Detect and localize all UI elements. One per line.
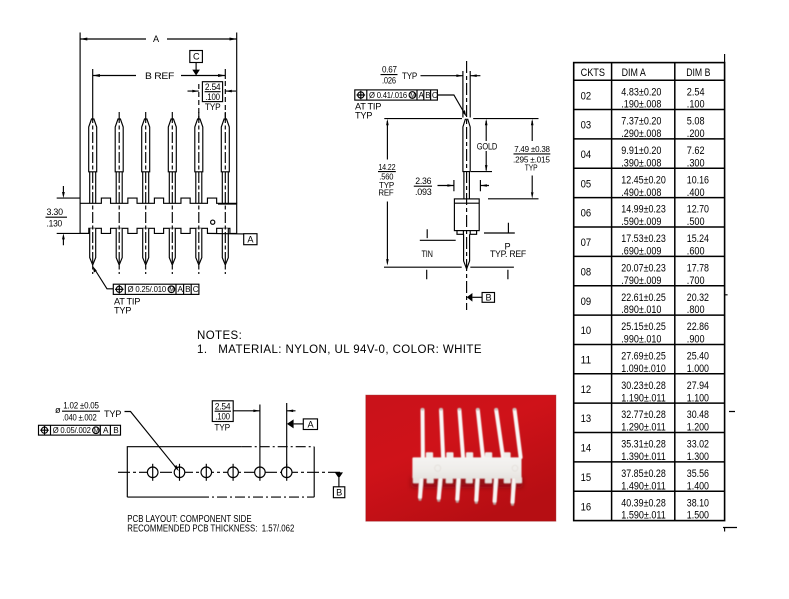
photo bottom pins — [420, 479, 514, 502]
pin 3 — [142, 112, 150, 274]
svg-text:22.86: 22.86 — [687, 321, 709, 333]
svg-text:2.54: 2.54 — [687, 86, 705, 98]
pin 1 — [89, 112, 97, 274]
svg-text:27.69±0.25: 27.69±0.25 — [621, 351, 666, 363]
svg-text:38.10: 38.10 — [687, 497, 709, 509]
table row 16 — [581, 497, 709, 521]
svg-text:4.83±0.20: 4.83±0.20 — [621, 86, 661, 98]
svg-text:1.390±.011: 1.390±.011 — [621, 451, 666, 463]
svg-text:.800: .800 — [687, 304, 705, 316]
PHOTO — [366, 395, 556, 521]
svg-text:.026: .026 — [382, 76, 396, 86]
molding marks — [435, 465, 441, 471]
svg-text:1.100: 1.100 — [687, 392, 709, 404]
dimension B REF extension lines — [93, 69, 226, 112]
svg-text:30.48: 30.48 — [687, 409, 709, 421]
svg-text:11: 11 — [581, 355, 592, 367]
svg-text:35.31±0.28: 35.31±0.28 — [621, 439, 666, 451]
svg-text:1.400: 1.400 — [687, 480, 709, 492]
svg-text:NOTES:: NOTES: — [197, 330, 242, 342]
svg-text:Ø 0.25/.010: Ø 0.25/.010 — [128, 285, 167, 294]
svg-text:14.99±0.23: 14.99±0.23 — [621, 204, 666, 216]
dimension GOLD — [471, 119, 498, 172]
pin 2 — [115, 112, 123, 274]
leader to feature control frame — [93, 266, 114, 289]
photo background — [366, 395, 556, 521]
svg-text:.600: .600 — [687, 246, 705, 258]
photo shadow under body — [411, 477, 523, 488]
pcb centerline — [118, 471, 341, 473]
svg-text:B: B — [185, 285, 191, 294]
svg-text:1.300: 1.300 — [687, 451, 709, 463]
svg-text:08: 08 — [581, 266, 592, 278]
leader to pin tip — [437, 95, 466, 117]
svg-text:1.000: 1.000 — [687, 363, 709, 375]
svg-text:9.91±0.20: 9.91±0.20 — [621, 145, 661, 157]
table row 06 — [581, 204, 709, 228]
pcb outline — [127, 447, 314, 497]
dimension 14.22/.560 TYP REF — [377, 119, 399, 266]
hole 2 — [174, 464, 185, 481]
photo body bar — [412, 457, 521, 478]
svg-text:1.02 ±0.05: 1.02 ±0.05 — [63, 401, 99, 411]
svg-text:.390±.008: .390±.008 — [621, 157, 661, 169]
table row 10 — [581, 321, 709, 345]
svg-text:.200: .200 — [687, 128, 705, 140]
svg-text:.040 ±.002: .040 ±.002 — [63, 413, 97, 423]
svg-text:B: B — [336, 488, 342, 498]
dimension 7.49/.295 TYP — [488, 119, 552, 199]
svg-text:12: 12 — [581, 384, 592, 396]
photo body bottom tabs — [413, 477, 522, 483]
PCBVIEW — [39, 401, 345, 535]
svg-text:17.53±0.23: 17.53±0.23 — [621, 233, 666, 245]
svg-text:A: A — [419, 91, 425, 100]
svg-text:M: M — [94, 429, 99, 435]
pin 6 — [221, 112, 229, 274]
svg-text:15: 15 — [581, 472, 592, 484]
hole size note — [55, 401, 121, 423]
svg-text:A: A — [103, 426, 109, 435]
P TYP. REF marks — [484, 223, 527, 260]
svg-text:3.30: 3.30 — [47, 207, 63, 217]
svg-text:.100: .100 — [205, 92, 220, 102]
svg-text:7.62: 7.62 — [687, 145, 705, 157]
dimension 0.67/.026 TYP — [381, 65, 481, 118]
svg-text:33.02: 33.02 — [687, 439, 709, 451]
svg-text:C: C — [193, 52, 200, 62]
LEFTVIEW — [46, 33, 258, 316]
datum B flag — [467, 292, 495, 302]
svg-text:TYP: TYP — [214, 423, 230, 433]
svg-text:.490±.008: .490±.008 — [621, 187, 661, 199]
svg-text:.100: .100 — [215, 412, 230, 422]
captions — [127, 514, 294, 535]
svg-text:25.15±0.25: 25.15±0.25 — [621, 321, 666, 333]
table row 13 — [581, 409, 709, 433]
AT TIP TYP label — [114, 297, 140, 316]
dimension B REF — [93, 71, 226, 81]
tip bottom extension line — [384, 267, 514, 279]
datum C flag — [190, 51, 203, 76]
svg-text:15.24: 15.24 — [687, 233, 709, 245]
table row 15 — [581, 468, 709, 492]
feature control frame position 0.41 — [355, 90, 438, 120]
TABLE — [574, 54, 737, 532]
svg-text:.900: .900 — [687, 334, 705, 346]
svg-text:32.77±0.28: 32.77±0.28 — [621, 409, 666, 421]
photo body top bumps — [426, 452, 511, 459]
table row 09 — [581, 292, 709, 316]
svg-text:TYP: TYP — [114, 306, 131, 316]
svg-text:.290±.008: .290±.008 — [621, 128, 661, 140]
svg-text:04: 04 — [581, 149, 592, 161]
svg-text:10: 10 — [581, 325, 592, 337]
datum B flag pcb — [333, 472, 344, 497]
svg-text:40.39±0.28: 40.39±0.28 — [621, 497, 666, 509]
svg-text:02: 02 — [581, 90, 592, 102]
svg-text:12.70: 12.70 — [687, 204, 709, 216]
boxed dimension 2.54/.100 TYP — [188, 81, 237, 119]
svg-text:.300: .300 — [687, 157, 705, 169]
table row 07 — [581, 233, 709, 257]
svg-text:B: B — [486, 292, 492, 302]
svg-text:.700: .700 — [687, 275, 705, 287]
svg-text:1.090±.010: 1.090±.010 — [621, 363, 666, 375]
svg-text:.990±.010: .990±.010 — [621, 334, 661, 346]
svg-text:.500: .500 — [687, 216, 705, 228]
svg-text:.790±.009: .790±.009 — [621, 275, 661, 287]
svg-text:TYP. REF: TYP. REF — [490, 249, 527, 259]
svg-text:CKTS: CKTS — [581, 67, 605, 79]
svg-text:20.07±0.23: 20.07±0.23 — [621, 262, 666, 274]
table row 04 — [581, 145, 705, 169]
dimension 2.36/.093 — [414, 176, 489, 197]
svg-text:37.85±0.28: 37.85±0.28 — [621, 468, 666, 480]
hole 5 — [255, 464, 266, 481]
svg-text:ø: ø — [55, 405, 61, 415]
svg-text:2.54: 2.54 — [205, 82, 221, 92]
svg-text:.400: .400 — [687, 187, 705, 199]
svg-text:13: 13 — [581, 413, 592, 425]
tip base extension line — [384, 118, 538, 120]
dimension A extension lines — [80, 33, 237, 204]
svg-text:10.16: 10.16 — [687, 174, 709, 186]
svg-text:M: M — [410, 93, 415, 99]
hole 3 — [201, 464, 212, 481]
svg-text:1.590±.011: 1.590±.011 — [621, 510, 666, 522]
svg-text:12.45±0.20: 12.45±0.20 — [621, 174, 666, 186]
svg-text:22.61±0.25: 22.61±0.25 — [621, 292, 666, 304]
MIDVIEW — [355, 61, 552, 310]
photo top pins — [423, 410, 521, 459]
svg-text:.100: .100 — [687, 99, 705, 111]
dimension 3.30/.130 — [46, 186, 89, 245]
pin 5 — [195, 112, 203, 274]
svg-text:DIM A: DIM A — [622, 67, 647, 79]
svg-text:.890±.010: .890±.010 — [621, 304, 661, 316]
datum A flag pcb — [287, 419, 318, 430]
svg-text:20.32: 20.32 — [687, 292, 709, 304]
NOTES — [197, 330, 482, 356]
table row 08 — [581, 262, 709, 286]
svg-text:Ø 0.41/.016: Ø 0.41/.016 — [369, 91, 408, 100]
svg-text:05: 05 — [581, 178, 592, 190]
svg-text:25.40: 25.40 — [687, 351, 709, 363]
svg-text:TYP: TYP — [104, 409, 121, 419]
svg-text:B: B — [113, 426, 119, 435]
svg-text:GOLD: GOLD — [477, 142, 498, 152]
svg-text:.130: .130 — [47, 219, 63, 229]
svg-text:17.78: 17.78 — [687, 262, 709, 274]
svg-text:.690±.009: .690±.009 — [621, 246, 661, 258]
feature control frame position 0.25 — [113, 284, 199, 294]
svg-text:1.190±.011: 1.190±.011 — [621, 392, 666, 404]
table row 14 — [581, 439, 709, 463]
svg-text:30.23±0.28: 30.23±0.28 — [621, 380, 666, 392]
table row 12 — [581, 380, 709, 404]
svg-text:14: 14 — [581, 443, 592, 455]
svg-text:.093: .093 — [415, 187, 432, 197]
svg-text:TYP: TYP — [525, 163, 538, 172]
svg-text:C: C — [432, 91, 438, 100]
TIN plating marks — [420, 229, 456, 259]
svg-text:TYP: TYP — [355, 110, 372, 120]
svg-text:2.54: 2.54 — [215, 401, 231, 411]
svg-text:07: 07 — [581, 237, 592, 249]
svg-text:M: M — [169, 288, 174, 294]
svg-text:1.200: 1.200 — [687, 422, 709, 434]
svg-text:TIN: TIN — [422, 249, 433, 259]
svg-text:7.49 ±0.38: 7.49 ±0.38 — [514, 145, 550, 154]
pin top caps — [421, 408, 517, 411]
table row 05 — [581, 174, 709, 198]
svg-text:A: A — [178, 285, 184, 294]
molding mark circle — [211, 220, 215, 224]
svg-text:27.94: 27.94 — [687, 380, 709, 392]
svg-text:B REF: B REF — [145, 71, 175, 81]
svg-text:35.56: 35.56 — [687, 468, 709, 480]
dimension A — [80, 34, 237, 44]
svg-text:0.67: 0.67 — [382, 65, 397, 75]
svg-text:REF: REF — [378, 189, 393, 198]
svg-text:1.490±.011: 1.490±.011 — [621, 480, 666, 492]
svg-text:09: 09 — [581, 296, 592, 308]
table row 11 — [581, 351, 709, 375]
pin 4 — [168, 112, 176, 274]
svg-text:B: B — [425, 91, 431, 100]
header body outline — [80, 198, 237, 233]
svg-text:7.37±0.20: 7.37±0.20 — [621, 116, 661, 128]
svg-text:Ø 0.05/.002: Ø 0.05/.002 — [53, 426, 92, 435]
hole 4 — [228, 464, 239, 481]
svg-text:1. MATERIAL: NYLON, UL 94V-0: 1. MATERIAL: NYLON, UL 94V-0, COLOR: WHI… — [197, 344, 482, 356]
hole 6 — [281, 464, 292, 481]
boxed dimension 2.54/.100 TYP pcb — [212, 401, 295, 466]
table row 03 — [581, 116, 705, 140]
datum A flag — [208, 233, 257, 244]
sheet zone ticks — [723, 54, 737, 532]
svg-text:.590±.009: .590±.009 — [621, 216, 661, 228]
feature control frame position 0.05 — [39, 425, 121, 435]
table grid — [574, 63, 725, 521]
svg-text:C: C — [193, 285, 199, 294]
svg-text:06: 06 — [581, 208, 592, 220]
svg-text:DIM B: DIM B — [686, 67, 710, 79]
svg-text:1.290±.011: 1.290±.011 — [621, 422, 666, 434]
table row 02 — [581, 86, 705, 110]
svg-text:2.36: 2.36 — [415, 176, 431, 186]
svg-text:1.500: 1.500 — [687, 510, 709, 522]
pin bottom tip caps — [418, 498, 514, 506]
table header — [581, 67, 711, 79]
svg-text:03: 03 — [581, 120, 592, 132]
svg-text:TYP: TYP — [205, 102, 221, 112]
svg-text:5.08: 5.08 — [687, 116, 705, 128]
svg-text:TYP: TYP — [402, 71, 417, 81]
hole 1 — [147, 464, 158, 481]
pin profile — [463, 119, 470, 269]
svg-text:16: 16 — [581, 501, 592, 513]
leader to hole 2 — [125, 412, 179, 472]
pin centerline — [466, 61, 468, 310]
svg-text:RECOMMENDED PCB THICKNESS: 1.: RECOMMENDED PCB THICKNESS: 1.57/.062 — [127, 524, 294, 535]
svg-text:14.22: 14.22 — [378, 163, 396, 172]
header body side view — [454, 199, 479, 234]
svg-text:.190±.008: .190±.008 — [621, 99, 661, 111]
